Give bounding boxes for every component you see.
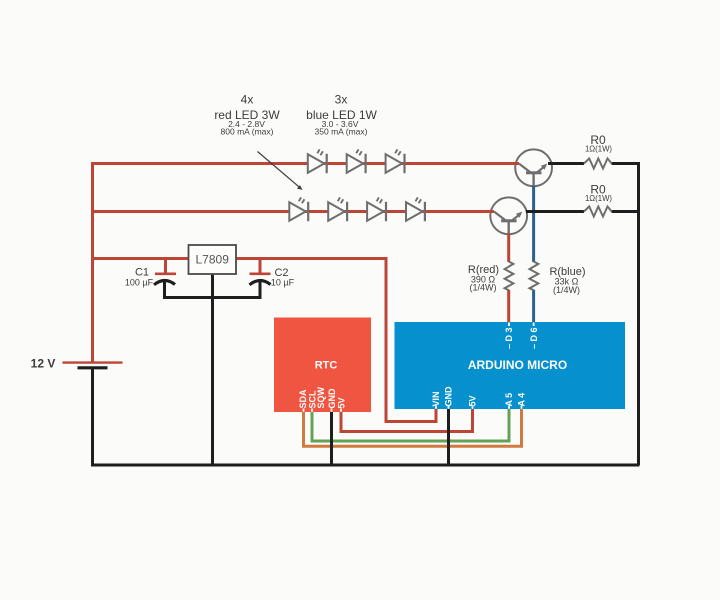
RTC module box [274,318,371,413]
transistor Q1 body [515,149,552,186]
wire: red RTC 5V to Arduino 5V [341,408,473,432]
capacitor C1 curved plate [154,280,175,284]
svg-text:SDA: SDA [298,389,308,409]
Arduino pin ticks [436,323,534,409]
capacitor C1 top plate [155,272,176,275]
annotation arrow to red LED row [258,152,300,188]
wire: black battery minus down [91,368,94,465]
svg-text:VIN: VIN [431,391,441,406]
wire: black Arduino GND down [447,408,450,465]
RTC pin ticks [304,409,342,412]
wire: blue R(blue) to Arduino D6 [532,290,535,323]
resistor R0 (top) zigzag [584,159,612,169]
LED D-blue-2 [347,149,366,173]
svg-text:L7809: L7809 [196,252,230,266]
svg-text:12 V: 12 V [31,357,56,371]
wire: red second LED rail to Q2 [93,210,495,213]
transistor Q2 inner symbol [494,212,520,234]
wire: black RTC GND down [330,412,333,465]
wire: orange RTC SDA to Arduino A4 [304,408,522,446]
svg-text:4x: 4x [241,93,254,107]
svg-text:1Ω(1W): 1Ω(1W) [585,145,612,154]
LED D-red-3 [367,197,386,221]
capacitor C2 curved plate [250,280,271,284]
wire: green RTC SCL to Arduino A5 [312,408,509,441]
svg-text:800 mA (max): 800 mA (max) [221,126,274,136]
battery minus plate [78,366,108,369]
LEDs row 1 (blue string, 3x) [289,149,425,221]
svg-text:5V: 5V [468,395,478,406]
LED D-blue-3 [386,149,405,173]
capacitor C2 top plate [250,272,271,275]
wire: red top rail from left rail corner to Q1 [93,164,520,363]
transistor Q2 body [490,197,527,234]
svg-text:(1/4W): (1/4W) [470,283,497,293]
regulator U1 L7809 box [189,245,237,274]
wire: black Q1 collector to R0 [548,162,584,165]
svg-text:100 µF: 100 µF [125,278,154,288]
svg-text:5V: 5V [336,397,346,408]
wire: red stub C2 [259,259,262,274]
battery plus plate [63,361,123,363]
svg-text:RTC: RTC [315,359,338,371]
LED D-blue-1 [308,149,327,173]
svg-text:GND: GND [444,386,454,407]
svg-text:ARDUINO MICRO: ARDUINO MICRO [468,358,567,372]
wire: red 9V rail from left rail through L7809 then down to VIN [93,259,437,422]
wire: black L7809 GND down [211,274,214,465]
wire: black R0 second to right rail [612,210,638,213]
svg-text:GND: GND [327,388,337,409]
wire: black R0 to right rail corner down to ground [612,164,639,466]
wire: black Q2 collector to R0 second [526,210,584,213]
svg-text:SQW: SQW [316,386,326,408]
svg-text:– D 3: – D 3 [504,327,514,349]
svg-text:10 µF: 10 µF [271,278,295,288]
wire: black capacitor bus C1-C2 [165,282,261,298]
resistor R0 (second) zigzag [584,207,612,217]
wire: red stub C1 [164,259,167,274]
resistor R(red) zigzag [505,262,514,291]
wire: red R(red) to Arduino D3 [507,290,510,323]
resistor R(blue) zigzag [530,262,539,291]
svg-text:(1/4W): (1/4W) [553,285,580,295]
svg-text:1Ω(1W): 1Ω(1W) [585,194,612,203]
wire: red Q2 base lead upper [507,234,510,263]
Arduino Micro box [395,322,626,409]
transistor Q1 inner symbol [519,164,545,186]
svg-text:A 5: A 5 [504,393,514,407]
LED D-red-4 [406,197,425,221]
svg-text:A 4: A 4 [517,393,527,407]
svg-text:– D 6: – D 6 [529,327,539,349]
wire: black ground rail [91,464,640,467]
LED D-red-1 [289,197,308,221]
LED D-red-2 [328,197,347,221]
wire: blue Q1 to R(blue) [532,186,535,262]
svg-text:3x: 3x [335,93,348,107]
svg-text:350 mA (max): 350 mA (max) [315,126,368,136]
